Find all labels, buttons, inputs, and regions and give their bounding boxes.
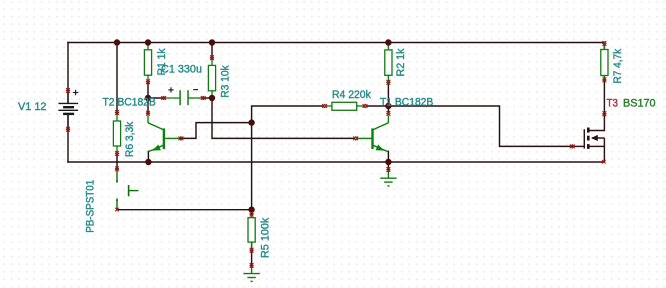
battery V1 bbox=[58, 91, 78, 131]
pin C1 left bbox=[161, 96, 166, 100]
pin R2 bottom bbox=[386, 80, 390, 85]
svg-text:T2 BC182B: T2 BC182B bbox=[103, 96, 156, 108]
wire R6 bottom to pushbutton bbox=[116, 154, 118, 170]
C1 minus sign bbox=[193, 89, 198, 91]
node C1/R3/T1 base wire bbox=[209, 95, 215, 101]
node top rail / R2 bbox=[385, 39, 391, 45]
resistor R5 100k bbox=[248, 214, 255, 251]
wire battery bottom lead bbox=[67, 114, 69, 162]
pin R6 top bbox=[115, 110, 119, 115]
pin R5 bottom bbox=[250, 248, 254, 253]
pin R6 bottom bbox=[115, 151, 119, 156]
wire node down to R5 bbox=[251, 123, 253, 210]
svg-text:R6 3,3k: R6 3,3k bbox=[124, 121, 136, 157]
svg-text:BS170: BS170 bbox=[623, 97, 656, 109]
svg-text:T3: T3 bbox=[607, 97, 619, 109]
pin T2 base bbox=[179, 136, 184, 140]
T1 emitter arrow bbox=[376, 145, 385, 151]
pin T3 gate bbox=[570, 144, 575, 148]
wire T1 emitter to rail bbox=[387, 151, 389, 162]
svg-text:T1 BC182B: T1 BC182B bbox=[380, 97, 433, 109]
resistor R1 1k bbox=[144, 43, 151, 83]
wire R6 feed from top rail bbox=[116, 43, 118, 114]
transistor T1 BC182B bbox=[357, 116, 388, 152]
svg-text:R4 220k: R4 220k bbox=[332, 89, 371, 101]
wire R4 right to node bbox=[367, 105, 389, 107]
wire T1 collector feed bbox=[387, 106, 389, 113]
pin T2 collector bbox=[146, 111, 150, 116]
wire R2 bottom to node bbox=[387, 83, 389, 106]
pin T1 base bbox=[353, 136, 358, 140]
svg-text:R3 10k: R3 10k bbox=[220, 65, 232, 98]
svg-text:PB-SPST01: PB-SPST01 bbox=[84, 180, 96, 233]
pin R5 top bbox=[250, 212, 254, 217]
wire C1 right pin to node bbox=[203, 97, 212, 99]
wire node to T3 gate bbox=[388, 106, 572, 146]
wire pushbutton to R5 node bbox=[117, 209, 252, 211]
pin marks bbox=[66, 41, 606, 268]
ground under R5 bbox=[243, 267, 259, 282]
svg-text:R7 4,7k: R7 4,7k bbox=[612, 48, 624, 83]
wire R5 bottom to ground bbox=[251, 242, 253, 266]
pin battery bottom bbox=[66, 127, 70, 132]
wire T1 ground feed bbox=[387, 162, 389, 171]
pin R7 top bbox=[602, 41, 606, 46]
resistor R2 1k bbox=[385, 43, 392, 83]
mosfet T3 BS170 bbox=[572, 114, 604, 162]
T2 emitter arrow bbox=[152, 145, 161, 151]
pin ground R5 bbox=[250, 263, 254, 268]
node T1 emitter on rail bbox=[385, 159, 391, 165]
wire T2 emitter to rail bbox=[147, 151, 149, 162]
battery plus sign bbox=[73, 90, 78, 95]
pushbutton PB-SPST01 bbox=[117, 171, 138, 209]
T3 body arrow bbox=[591, 135, 598, 141]
pin T1 ground bbox=[386, 167, 390, 172]
ground under T1 bbox=[380, 171, 396, 186]
pin R4 right bbox=[363, 104, 368, 108]
node pushbutton/R5 bbox=[248, 207, 254, 213]
wire node up to R4 left bbox=[252, 106, 323, 123]
svg-text:R2 1k: R2 1k bbox=[395, 48, 407, 76]
pin T3 source bbox=[602, 160, 606, 164]
pin R4 left bbox=[322, 104, 327, 108]
wire node to C1 left pin bbox=[148, 97, 164, 99]
capacitor C1 330u bbox=[164, 90, 204, 105]
wire node to T1 base bbox=[212, 98, 355, 138]
wire bottom rail bbox=[68, 161, 604, 163]
node top rail / R6 bbox=[114, 39, 120, 45]
pin battery top bbox=[66, 88, 70, 93]
svg-text:R5 100k: R5 100k bbox=[260, 217, 272, 258]
svg-text:V1 12: V1 12 bbox=[18, 101, 47, 113]
wire top rail bbox=[68, 42, 604, 44]
wire R7 top feed bbox=[603, 43, 605, 50]
pin T1 collector bbox=[386, 111, 390, 116]
pushbutton contact tips bbox=[116, 180, 118, 183]
wire R3 top feed bbox=[211, 43, 213, 59]
wire R5 top feed bbox=[251, 210, 253, 218]
wire R7 bottom to T3 drain bbox=[603, 76, 605, 115]
node R2/R4/T1 collector bbox=[385, 103, 391, 109]
wire T2 base to node bbox=[181, 123, 252, 139]
pin R3 top bbox=[210, 56, 214, 61]
transistor T2 BC182B bbox=[148, 116, 180, 152]
wire T2 collector feed bbox=[147, 98, 149, 114]
resistor R3 10k bbox=[208, 58, 215, 98]
node top rail / R1 bbox=[145, 39, 151, 45]
C1 plus sign bbox=[168, 87, 173, 92]
node R1/C1/T2 collector bbox=[145, 95, 151, 101]
pin C1 right bbox=[201, 96, 206, 100]
node T2 base/R4 branch bbox=[248, 119, 254, 125]
pin R7 bottom bbox=[602, 78, 606, 83]
wire R1 bottom to node bbox=[147, 82, 149, 98]
pin pushbutton top bbox=[115, 167, 119, 172]
resistor R7 4,7k bbox=[601, 43, 608, 81]
pin R1 bottom bbox=[146, 79, 150, 84]
pin pushbutton bottom bbox=[115, 208, 119, 212]
pin T3 drain bbox=[602, 111, 606, 116]
resistor R4 220k bbox=[325, 102, 366, 110]
wire battery top lead bbox=[67, 43, 69, 104]
svg-text:R1 1k: R1 1k bbox=[156, 48, 168, 75]
resistor R6 3,3k bbox=[113, 113, 120, 154]
node top rail / R3 bbox=[209, 39, 215, 45]
node T2 emitter on rail bbox=[145, 159, 151, 165]
